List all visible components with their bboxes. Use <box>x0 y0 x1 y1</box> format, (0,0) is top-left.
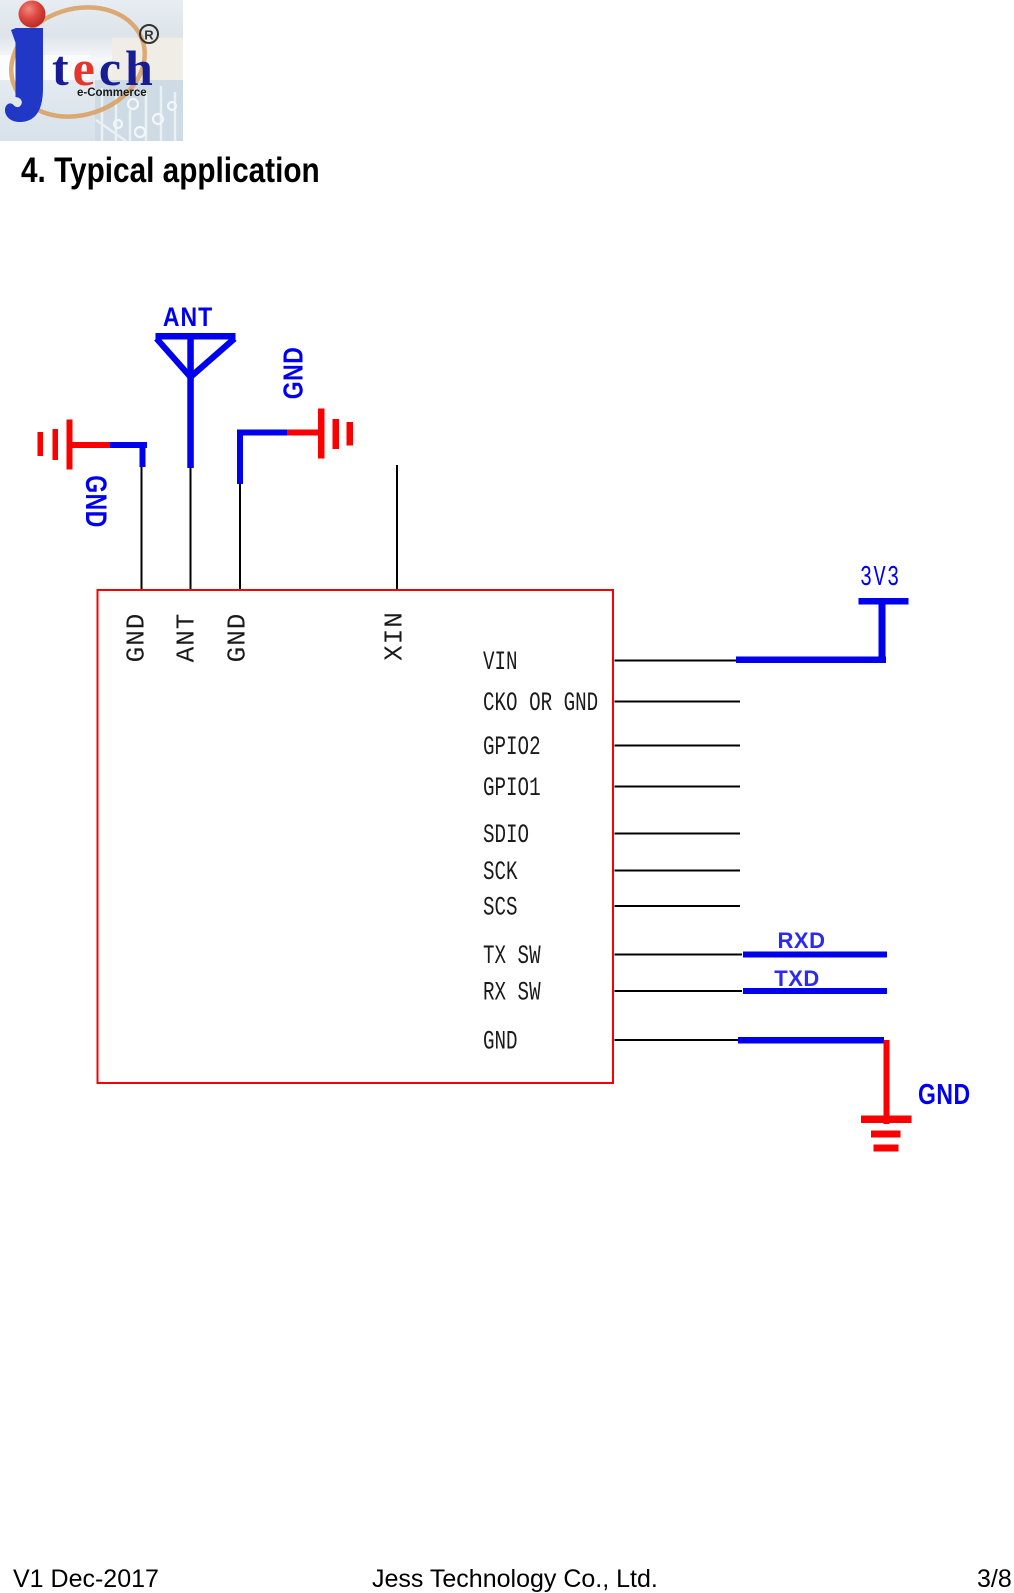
wire GPIO2 <box>615 745 741 747</box>
ground GND (left) <box>38 420 111 470</box>
logo jtech e-Commerce <box>0 0 183 141</box>
svg-text:VIN: VIN <box>483 647 518 677</box>
wire TXD blue <box>743 988 887 994</box>
svg-text:GND: GND <box>79 475 113 528</box>
svg-text:GND: GND <box>918 1077 971 1110</box>
wire ANT pin <box>190 468 192 591</box>
wire GND <box>615 1039 741 1041</box>
svg-text:e-Commerce: e-Commerce <box>77 87 147 99</box>
svg-text:GPIO1: GPIO1 <box>483 773 541 803</box>
svg-text:SDIO: SDIO <box>483 820 529 850</box>
ground GND (right) <box>287 409 353 459</box>
svg-text:RX SW: RX SW <box>483 978 541 1008</box>
pin labels right side <box>483 647 598 1056</box>
wire SCS <box>615 905 741 907</box>
wire SCK <box>615 870 741 872</box>
svg-text:SCS: SCS <box>483 893 518 923</box>
svg-text:GND: GND <box>223 613 253 663</box>
svg-text:CKO OR GND: CKO OR GND <box>483 688 598 718</box>
power 3V3 symbol <box>859 598 909 662</box>
wires right side pins <box>615 661 743 1041</box>
svg-text:TXD: TXD <box>774 966 820 991</box>
wire GPIO1 <box>615 786 741 788</box>
svg-text:GND: GND <box>279 347 310 400</box>
svg-text:ANT: ANT <box>172 613 202 663</box>
svg-text:ANT: ANT <box>163 302 213 332</box>
svg-text:RXD: RXD <box>778 928 826 953</box>
wire GND red stem <box>884 1040 890 1124</box>
svg-text:SCK: SCK <box>483 857 518 887</box>
wire CKO OR GND <box>615 701 741 703</box>
wire blue to left ground <box>110 442 147 467</box>
antenna ANT symbol <box>156 333 236 468</box>
wire VIN blue <box>736 657 886 664</box>
svg-text:GND: GND <box>122 613 152 663</box>
wire GND blue (bottom) <box>738 1037 884 1044</box>
wire XIN pin <box>396 465 398 591</box>
svg-text:XIN: XIN <box>380 611 410 661</box>
svg-text:R: R <box>144 28 154 43</box>
chip U1 <box>98 590 614 1083</box>
svg-text:TX SW: TX SW <box>483 941 541 971</box>
ground GND (bottom right) <box>861 1116 912 1152</box>
svg-text:GPIO2: GPIO2 <box>483 732 541 762</box>
svg-text:3V3: 3V3 <box>860 562 901 595</box>
wire VIN <box>615 660 738 662</box>
wire GND pin2 <box>239 484 241 591</box>
wire RX SW <box>615 990 743 992</box>
wire blue to right ground <box>237 430 287 485</box>
wire TX SW <box>615 954 743 956</box>
svg-text:GND: GND <box>483 1027 518 1057</box>
wire SDIO <box>615 833 741 835</box>
wire GND pin1 <box>141 467 143 591</box>
wire RXD blue <box>743 952 887 958</box>
